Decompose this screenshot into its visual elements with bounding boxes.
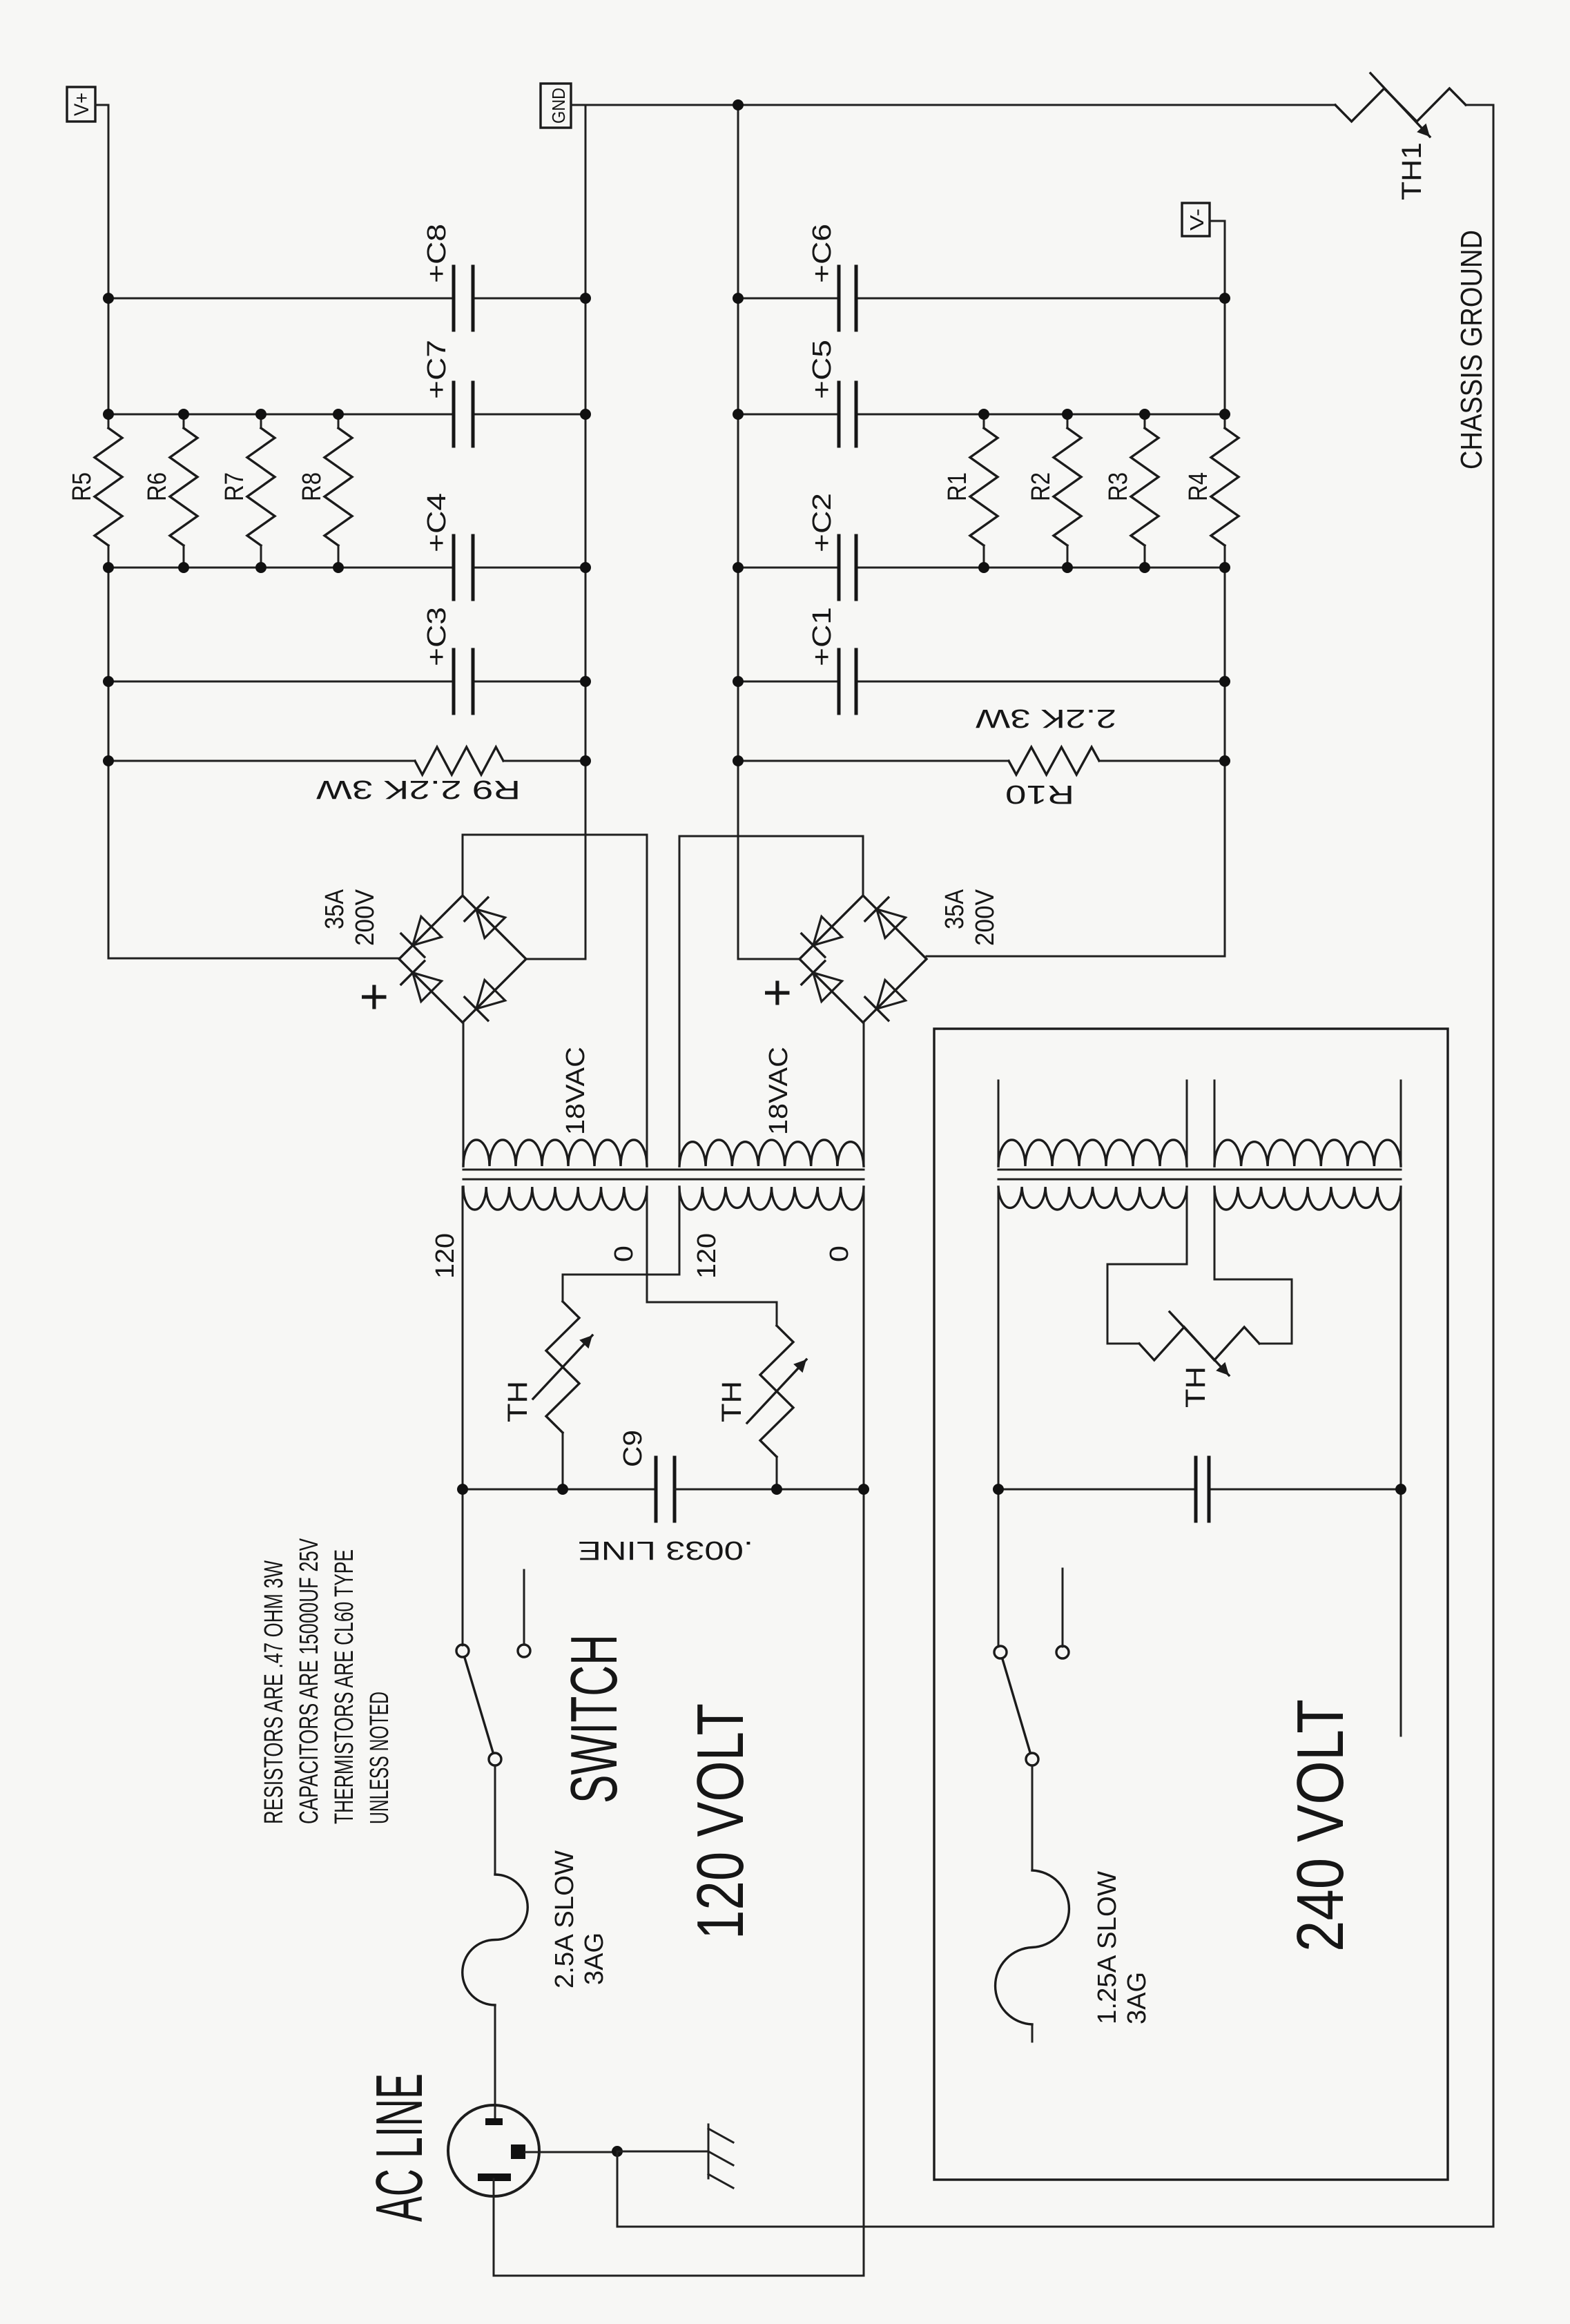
svg-text:+C8: +C8 (423, 224, 452, 283)
svg-text:R2: R2 (1027, 472, 1056, 501)
wire C4 branch (108, 567, 454, 569)
notes text (260, 1538, 394, 1824)
capacitor C1 (808, 607, 856, 713)
wire bridge BR1 - to GND1 (526, 958, 585, 960)
svg-text:3AG: 3AG (1123, 1972, 1152, 2024)
svg-text:AC LINE: AC LINE (362, 2073, 436, 2222)
bridge rectifier BR1 35A 200V (320, 889, 526, 1023)
transformer T2 primary winding A (998, 1187, 1187, 1210)
wire BR1 AC right jog to secondary S1 (462, 835, 464, 895)
wire switch to fuse (494, 1765, 496, 1875)
wire C7 branch (108, 414, 454, 416)
junction dots V+ rail (103, 293, 114, 304)
capacitor C8 (423, 224, 473, 330)
wire primary P1 0 lead jog (646, 1187, 648, 1302)
wire primary P1 120 lead (462, 1187, 464, 1645)
resistor R4 (1184, 428, 1239, 545)
fuse F1 2.5A SLOW 3AG (463, 1850, 609, 2005)
capacitor C3 (423, 607, 473, 713)
svg-text:+C7: +C7 (423, 340, 452, 399)
svg-text:0: 0 (610, 1246, 639, 1262)
junction dots resistor bank ch1 (178, 409, 189, 420)
capacitor line 240 (1194, 1458, 1198, 1521)
capacitor C5 (808, 340, 856, 446)
svg-text:R10: R10 (1005, 779, 1074, 808)
wire T2 primary A outer lead (998, 1187, 1000, 1647)
svg-text:+C6: +C6 (808, 224, 837, 283)
junction dots 240 line bus (993, 1484, 1004, 1495)
wire V- rail (1224, 545, 1226, 956)
resistor R7 (220, 414, 275, 568)
svg-text:+C1: +C1 (808, 607, 837, 666)
wire neutral from plug (493, 2179, 495, 2276)
switch SW1 (456, 1570, 631, 1803)
wire fuse to AC plug (494, 2005, 496, 2119)
wire switch240 to fuse240 (1031, 1765, 1034, 1870)
svg-text:R4: R4 (1184, 472, 1213, 501)
transformer T2 secondary winding A (998, 1081, 1187, 1166)
svg-text:R1: R1 (943, 472, 972, 501)
capacitor C7 (423, 340, 473, 446)
svg-text:+: + (347, 982, 402, 1011)
svg-text:+C2: +C2 (808, 493, 837, 552)
thermistor TH line A (503, 1275, 592, 1489)
wire secondary S2 to BR2 AC left (863, 1023, 865, 1166)
transformer T2 secondary winding B (1214, 1081, 1401, 1166)
svg-text:120 VOLT: 120 VOLT (684, 1703, 757, 1939)
svg-text:CHASSIS GROUND: CHASSIS GROUND (1455, 230, 1489, 469)
svg-text:.0033 LINE: .0033 LINE (578, 1536, 753, 1565)
wire T2 primary B outer lead (1400, 1187, 1402, 1736)
svg-text:UNLESS NOTED: UNLESS NOTED (365, 1692, 394, 1824)
wire GND2 rail (737, 105, 739, 959)
wire earth riser (left) (617, 2226, 1493, 2228)
svg-text:+C3: +C3 (423, 607, 452, 666)
svg-text:V+: V+ (70, 93, 93, 116)
svg-text:200V: 200V (971, 889, 1000, 946)
resistor R9 2.2K 3W bleeder (108, 747, 585, 804)
resistor R3 (1104, 414, 1159, 568)
transformer T1 primary winding P1 120V (463, 1187, 647, 1210)
svg-text:R3: R3 (1104, 472, 1133, 501)
svg-text:2.2K 3W: 2.2K 3W (976, 704, 1116, 733)
svg-text:0: 0 (825, 1246, 854, 1262)
wire C2 branch (738, 567, 839, 569)
svg-text:R6: R6 (143, 472, 172, 501)
wire C1 branch (738, 681, 839, 683)
svg-text:18VAC: 18VAC (764, 1047, 793, 1135)
wire earth to chassis riser (617, 2151, 619, 2227)
resistor R8 (298, 414, 352, 568)
wire C6 branch (738, 298, 839, 300)
wire primary P2 120 lead jog (679, 1187, 681, 1275)
transformer T1 core (463, 1169, 864, 1171)
junction dots resistor bank ch2 (978, 409, 989, 420)
svg-text:TH1: TH1 (1397, 142, 1427, 200)
wire GND vertical bus (571, 104, 1335, 106)
svg-text:R8: R8 (298, 472, 327, 501)
transformer T2 primary winding B (1214, 1187, 1401, 1210)
junction dots V- rail (1219, 293, 1230, 304)
svg-text:35A: 35A (940, 889, 969, 929)
thermistor TH1 chassis (1335, 73, 1466, 200)
svg-text:R7: R7 (220, 472, 249, 501)
svg-text:+C4: +C4 (423, 493, 452, 552)
transformer T1 primary winding P2 120V (679, 1187, 864, 1210)
svg-text:120: 120 (431, 1233, 460, 1279)
resistor R1 (943, 414, 998, 568)
wire V+ rail to bridge BR1 + (108, 958, 399, 960)
svg-text:THERMISTORS ARE CL60 TYPE: THERMISTORS ARE CL60 TYPE (330, 1549, 359, 1824)
thermistor TH line B (717, 1302, 806, 1489)
wire T2 primary B inner jog (1214, 1187, 1216, 1279)
wire chassis bottom rail (1466, 104, 1493, 106)
switch SW2 240 (994, 1569, 1069, 1765)
wire earth from plug (525, 2151, 617, 2153)
svg-text:200V: 200V (351, 889, 380, 946)
thermistor TH 240 series (1107, 1312, 1292, 1408)
transformer T1 secondary winding S1 18VAC (463, 1047, 647, 1166)
svg-text:SWITCH: SWITCH (557, 1634, 631, 1803)
svg-text:R9 2.2K 3W: R9 2.2K 3W (316, 775, 521, 804)
wire line bus A (463, 1489, 656, 1491)
wire V+ rail (108, 545, 110, 958)
wire secondary S1 to BR1 AC left (463, 1023, 465, 1166)
V- output terminal box (1182, 203, 1225, 236)
240 volt option box (934, 1029, 1448, 2180)
wire C5 branch (738, 414, 839, 416)
fuse F2 1.25A SLOW 3AG (996, 1870, 1152, 2042)
capacitor C2 (808, 493, 856, 599)
capacitor C4 (423, 493, 473, 599)
svg-text:18VAC: 18VAC (561, 1047, 590, 1135)
resistor R6 (143, 414, 197, 568)
wire primary P2 0 neutral lead (863, 1187, 865, 2276)
V+ output terminal box (67, 87, 108, 122)
wire GND1 rail (585, 105, 587, 959)
svg-text:RESISTORS ARE .47 OHM 3W: RESISTORS ARE .47 OHM 3W (260, 1560, 289, 1824)
resistor R10 2.2K 3W bleeder (738, 704, 1225, 808)
svg-text:GND: GND (548, 88, 569, 124)
wire bridge BR2 - to V- rail (927, 956, 1225, 958)
GND output terminal box (541, 84, 571, 128)
svg-text:+C5: +C5 (808, 340, 837, 399)
svg-text:3AG: 3AG (580, 1933, 609, 1985)
svg-text:R5: R5 (68, 472, 97, 501)
svg-text:2.5A SLOW: 2.5A SLOW (550, 1850, 579, 1988)
svg-text:120: 120 (692, 1233, 721, 1279)
svg-text:CAPACITORS ARE 15000UF 25V: CAPACITORS ARE 15000UF 25V (295, 1538, 324, 1824)
junction dots line bus (457, 1484, 468, 1495)
svg-text:C9: C9 (619, 1430, 648, 1467)
capacitor C9 .0033 LINE (578, 1430, 753, 1565)
junction dots GND1 rail (580, 293, 591, 304)
resistor R5 (68, 428, 122, 545)
svg-text:35A: 35A (320, 889, 349, 929)
resistor R2 (1027, 414, 1081, 568)
svg-text:+: + (750, 978, 805, 1007)
wire line bus B (675, 1489, 864, 1491)
wire T2 primary A inner jog (1186, 1187, 1188, 1264)
wire bridge BR2 + to GND2 (738, 958, 799, 960)
node earth junction (612, 2146, 623, 2157)
wire C3 branch (108, 681, 454, 683)
svg-text:240 VOLT: 240 VOLT (1283, 1699, 1357, 1952)
wire BR2 AC right jog to secondary S2 (862, 836, 864, 895)
transformer T1 secondary winding S2 18VAC (679, 1047, 864, 1166)
svg-text:TH: TH (1181, 1366, 1211, 1408)
svg-text:1.25A SLOW: 1.25A SLOW (1093, 1871, 1122, 2024)
svg-text:TH: TH (503, 1381, 533, 1422)
chassis ground symbol (617, 2124, 733, 2188)
svg-text:V-: V- (1186, 209, 1208, 231)
capacitor C6 (808, 224, 856, 330)
transformer T2 core (998, 1169, 1401, 1171)
wire C8 branch (108, 298, 454, 300)
svg-text:TH: TH (717, 1381, 747, 1422)
AC plug (362, 2073, 539, 2222)
wire 240 line bus (998, 1489, 1196, 1491)
bridge rectifier BR2 35A 200V (750, 889, 1000, 1023)
junction dots GND2 rail (733, 293, 744, 304)
